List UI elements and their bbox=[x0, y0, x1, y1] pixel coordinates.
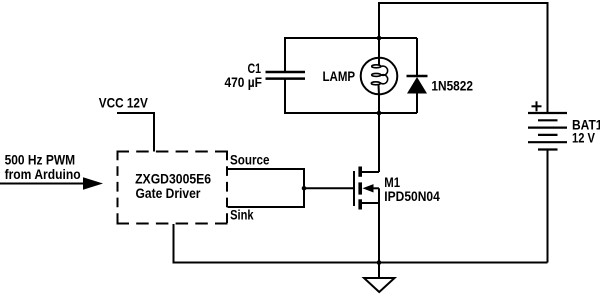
svg-text:Sink: Sink bbox=[230, 207, 254, 223]
svg-text:Source: Source bbox=[230, 152, 270, 168]
svg-text:IPD50N04: IPD50N04 bbox=[384, 188, 440, 204]
svg-text:470 µF: 470 µF bbox=[225, 74, 263, 90]
svg-text:500 Hz PWM: 500 Hz PWM bbox=[5, 152, 76, 168]
svg-text:from Arduino: from Arduino bbox=[5, 166, 81, 182]
svg-text:1N5822: 1N5822 bbox=[431, 78, 473, 94]
svg-text:ZXGD3005E6: ZXGD3005E6 bbox=[135, 170, 211, 186]
svg-text:LAMP: LAMP bbox=[323, 68, 356, 84]
svg-text:VCC 12V: VCC 12V bbox=[99, 95, 149, 111]
svg-text:Gate Driver: Gate Driver bbox=[136, 185, 201, 201]
svg-text:12 V: 12 V bbox=[572, 130, 596, 146]
